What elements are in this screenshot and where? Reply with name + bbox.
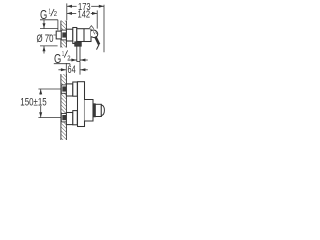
dimension 150±15 arrows — [40, 89, 42, 94]
diameter 70: extension lines — [40, 28, 58, 30]
top union fitting — [66, 84, 72, 96]
extension line wall face — [66, 3, 68, 20]
dimension 64 extension lines — [65, 63, 67, 75]
cartridge housing (bottom view) — [85, 100, 94, 122]
G 1/2 top leader arrow — [43, 20, 45, 28]
pipe in wall (dark) — [62, 32, 66, 37]
svg-text:150±15: 150±15 — [20, 97, 46, 109]
wall hole — [61, 30, 67, 40]
svg-text:Ø 70: Ø 70 — [37, 33, 54, 45]
supply pipe centerline — [49, 34, 63, 36]
mixer body (side view) — [77, 29, 91, 42]
top escutcheon — [73, 82, 78, 96]
supply pipe stub — [56, 31, 61, 39]
wall section (top side view) — [61, 21, 67, 48]
shower outlet pipe G1/2 — [76, 46, 78, 61]
svg-text:142: 142 — [78, 10, 91, 21]
G 1/2 bottom arrows at outlet — [69, 59, 77, 61]
lever head — [91, 30, 98, 38]
dimension 64 arrows — [58, 69, 66, 71]
svg-text:1: 1 — [49, 9, 51, 16]
body column (bottom view) — [78, 82, 85, 127]
lever head shading — [93, 31, 95, 34]
svg-text:1: 1 — [62, 51, 64, 58]
svg-text:2: 2 — [67, 56, 70, 63]
lever tip — [97, 44, 100, 49]
top union hole — [61, 85, 66, 93]
dimension 173 — [67, 5, 77, 7]
svg-text:G: G — [40, 7, 47, 22]
bottom escutcheon — [73, 111, 78, 125]
S-union fitting (side view) — [66, 29, 72, 41]
svg-text:64: 64 — [68, 64, 76, 76]
bottom union hole — [61, 114, 66, 122]
dimension 150±15 extension lines — [38, 88, 61, 90]
G 1/2 label bottom: underline — [54, 63, 70, 65]
svg-text:2: 2 — [54, 11, 57, 18]
escutcheon edge-on (side view) — [73, 28, 77, 44]
bottom union fitting — [66, 113, 72, 125]
lever stub body — [95, 104, 101, 116]
extension line 173 — [103, 5, 105, 52]
diameter 70 bottom arrow — [43, 46, 45, 53]
lever grip — [95, 37, 99, 45]
wall section (bottom view) — [61, 74, 67, 140]
svg-text:G: G — [54, 51, 61, 66]
lever stub dome — [101, 105, 104, 116]
top union pipe (dark) — [62, 86, 66, 91]
bottom union pipe (dark) — [62, 115, 66, 120]
button peak on body top — [89, 26, 94, 29]
shower outlet base (dark) — [75, 42, 82, 46]
lever stub neck (dark) — [93, 104, 95, 117]
G 1/2 label top: underline and leader — [40, 19, 58, 21]
extension line 142 — [96, 10, 98, 28]
dimension 142 — [67, 12, 76, 14]
